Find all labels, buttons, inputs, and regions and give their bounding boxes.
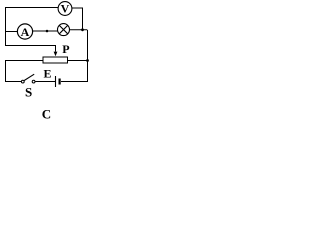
switch S contact right [32, 80, 35, 83]
rheostat P body [43, 57, 68, 63]
wire right rail [87, 30, 89, 82]
svg-text:P: P [62, 42, 69, 56]
node junction dot resistor lead meets right rail [86, 59, 89, 62]
battery E cell: short thick plate [59, 79, 61, 85]
wire resistor left lead to left rail [5, 60, 43, 62]
node junction dot voltmeter drop meets lamp wire [81, 28, 84, 31]
wire left rail lower segment [5, 60, 7, 82]
wire voltmeter right to corner [72, 7, 84, 9]
wire battery to right rail [61, 81, 88, 83]
switch S lever [24, 74, 34, 80]
svg-text:A: A [21, 25, 30, 39]
svg-text:E: E [44, 67, 52, 81]
wire ammeter row left [5, 31, 18, 33]
switch S contact left [21, 80, 24, 83]
svg-text:C: C [42, 107, 51, 122]
wire wiper horizontal from left rail [5, 45, 56, 47]
wire wiper vertical drop [55, 46, 57, 52]
wire left rail upper segment [5, 7, 7, 46]
lamp [58, 24, 70, 36]
rheostat wiper arrowhead [54, 52, 58, 57]
battery E cell: long thin plate [55, 76, 57, 87]
wire resistor right lead to right rail [68, 60, 88, 62]
wire lamp right to right rail [70, 29, 88, 31]
wire top horizontal from left rail to voltmeter [5, 7, 58, 9]
wire voltmeter drop to lamp-row junction [82, 8, 84, 30]
voltmeter V [58, 2, 72, 16]
svg-text:S: S [25, 85, 32, 100]
ammeter A [17, 24, 32, 39]
svg-text:V: V [61, 2, 70, 16]
wire ammeter to lamp [33, 30, 58, 32]
node junction dot on ammeter-lamp wire [46, 30, 49, 33]
wire switch to battery [36, 81, 56, 83]
wire bottom to switch [5, 81, 21, 83]
